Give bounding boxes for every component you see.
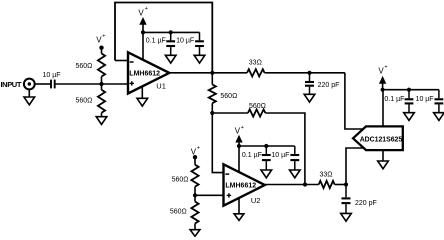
U2 bias junction (193, 193, 197, 197)
U1 power pin wire (142, 32, 144, 60)
svg-text:+: + (384, 65, 387, 71)
capacitor 0.1uF (U1 rail) (146, 32, 175, 55)
svg-text:10 µF: 10 µF (176, 37, 194, 44)
V+ supply U1 (138, 6, 147, 34)
ground (0.1uF U1) (165, 55, 176, 63)
capacitor 0.1uF (ADC rail) (384, 90, 413, 113)
svg-text:+: + (197, 145, 200, 151)
capacitor 0.1uF (U2 rail) (242, 146, 271, 170)
svg-text:+: + (145, 6, 148, 12)
svg-text:560Ω: 560Ω (249, 103, 266, 110)
wire 33ohm to 220pF node (265, 72, 345, 74)
wire C1 to node A (56, 83, 129, 85)
svg-text:220 pF: 220 pF (355, 200, 377, 207)
svg-text:+: + (241, 125, 244, 131)
U2 plus sign (227, 193, 231, 197)
connector J1 (24, 79, 35, 90)
node A junction (99, 82, 103, 86)
svg-text:560Ω: 560Ω (170, 209, 187, 216)
U2 minus sign (225, 173, 229, 175)
svg-text:0.1 µF: 0.1 µF (242, 152, 262, 159)
ground (0.1uF U2) (261, 170, 272, 178)
svg-text:INPUT: INPUT (1, 80, 22, 89)
ADC ground pin wire (382, 150, 384, 161)
svg-text:0.1 µF: 0.1 µF (146, 37, 166, 44)
resistor R1 560 ohm (bias upper) (75, 48, 105, 84)
svg-text:560Ω: 560Ω (75, 98, 92, 105)
ground (ADC) (378, 161, 389, 169)
svg-text:U1: U1 (156, 82, 166, 91)
wire U1 output (169, 72, 247, 74)
ground (0.1uF ADC) (404, 113, 415, 121)
wire to ADC minus input (346, 148, 364, 185)
junction on U2 rail (264, 144, 268, 148)
U2 ground pin wire (238, 198, 240, 214)
node U1 out junction (210, 71, 214, 75)
svg-text:U2: U2 (251, 196, 261, 205)
220pF node junction (top) (307, 71, 311, 75)
svg-text:10 µF: 10 µF (416, 96, 434, 103)
ground (220pF top) (304, 94, 315, 102)
U2 decoupling rail wire (239, 145, 295, 147)
ground (input connector) (24, 89, 35, 104)
svg-text:0.1 µF: 0.1 µF (384, 96, 404, 103)
svg-text:220 pF: 220 pF (318, 82, 340, 89)
ground (10uF U2) (290, 170, 301, 178)
svg-text:ADC121S625: ADC121S625 (360, 136, 403, 143)
svg-text:10 µF: 10 µF (271, 152, 289, 159)
ground (under R2) (96, 117, 107, 125)
V+ terminal (U2 bias) (191, 145, 200, 159)
sum node junction (210, 111, 214, 115)
resistor R2 560 ohm (bias lower) (75, 84, 105, 117)
resistor 560 ohm (U2 feedback) (248, 103, 266, 116)
wire sum node down to U2 inverting input (212, 113, 228, 173)
resistor 33 ohm (bottom) (319, 172, 335, 188)
svg-text:+: + (102, 34, 105, 40)
resistor 560 ohm (U2 bias lower) (170, 195, 199, 229)
capacitor C1 10uF (43, 72, 61, 88)
resistor 560 ohm (U2 bias upper) (172, 157, 199, 195)
wire bias junction to U2 plus input (195, 194, 228, 196)
svg-text:33Ω: 33Ω (249, 60, 262, 67)
feedback wire U1 loop (115, 3, 212, 73)
svg-text:560Ω: 560Ω (172, 176, 189, 183)
svg-text:LMH6612: LMH6612 (129, 70, 160, 77)
svg-text:560Ω: 560Ω (220, 93, 237, 100)
capacitor 10uF (U1 rail) (176, 32, 204, 55)
svg-text:LMH6612: LMH6612 (225, 183, 256, 190)
U1 minus sign (130, 61, 134, 63)
capacitor 220pF (top) (305, 73, 339, 95)
wire sum node to 560 fb (212, 112, 248, 114)
U1 ground pin wire (141, 86, 143, 98)
U1 decoupling rail wire (143, 31, 200, 33)
junction on ADC rail (407, 88, 411, 92)
ground (10uF ADC) (434, 113, 444, 121)
svg-text:V: V (138, 9, 144, 18)
ADC U3 ADC121S625 (353, 126, 403, 150)
capacitor 10uF (ADC rail) (416, 90, 444, 113)
ADC power pin wire (382, 90, 384, 127)
svg-text:33Ω: 33Ω (319, 172, 332, 179)
junction on rail (169, 30, 173, 34)
U2 output junction (303, 182, 307, 186)
wire fb to U2 output (265, 113, 305, 185)
capacitor 10uF (U2 rail) (271, 146, 299, 170)
svg-text:560Ω: 560Ω (75, 63, 92, 70)
ground (U2) (234, 214, 244, 221)
op-amp U2 triangle (224, 164, 265, 205)
wire 33ohm to 220pF node (bottom) (335, 184, 346, 186)
wire to U1 inverting input (115, 60, 129, 62)
V+ terminal (left bias) (96, 34, 105, 50)
resistor 560 ohm (U1 out to sum node) (209, 73, 238, 113)
ground (10uF U1) (194, 55, 205, 63)
resistor 33 ohm (top) (247, 60, 265, 77)
220pF node junction (bottom) (344, 182, 348, 186)
U1 plus sign (130, 81, 134, 85)
wire U2 output (265, 184, 319, 186)
capacitor 220pF (bottom) (342, 185, 377, 214)
ground (220pF bottom) (341, 213, 352, 221)
V+ supply ADC (378, 65, 387, 92)
ADC decoupling rail wire (383, 89, 439, 91)
V+ supply U2 (235, 125, 244, 148)
U2 power pin wire (238, 146, 240, 173)
wire to ADC plus input (345, 73, 364, 129)
ground (U2 bias) (190, 230, 200, 237)
op-amp U1 triangle (128, 52, 169, 93)
wire connector to C1 (35, 83, 50, 85)
svg-text:10 µF: 10 µF (43, 72, 61, 79)
ground (U1) (137, 98, 148, 106)
